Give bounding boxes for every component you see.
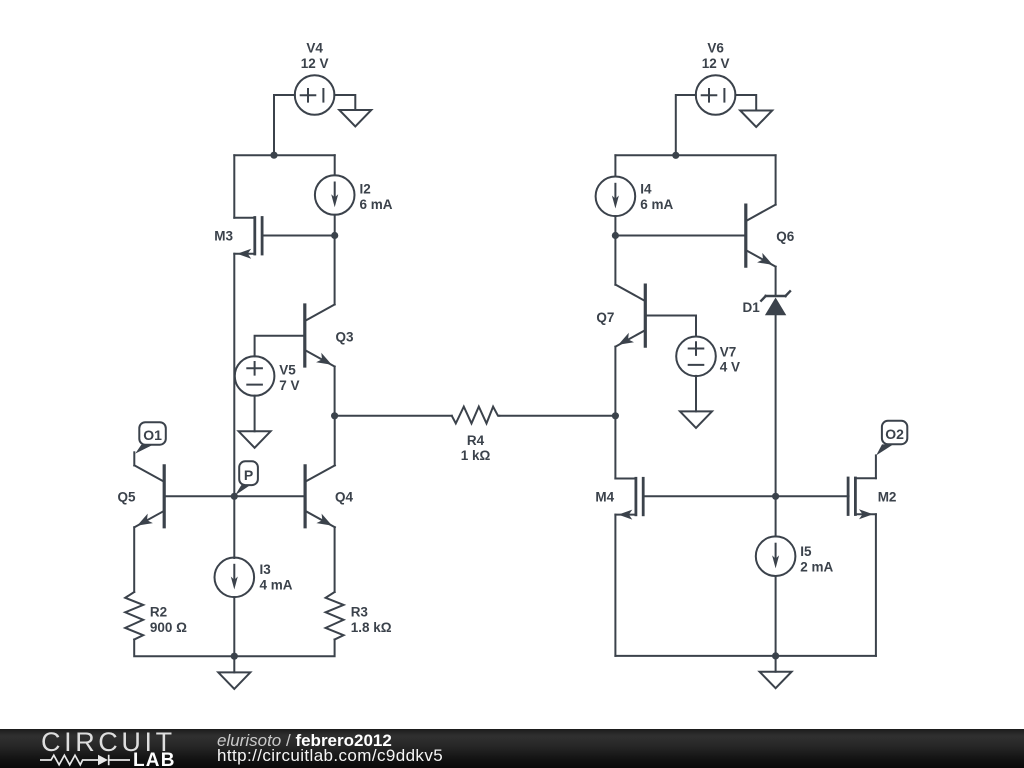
- transistor Q7 (PNP): [616, 285, 646, 347]
- ground bottom-right: [760, 672, 792, 689]
- wire M3 drain from rail: [233, 155, 235, 218]
- node junction I4/Q6 base/Q7 collector: [612, 232, 619, 239]
- wire Q3 emitter down to node: [334, 367, 336, 416]
- transistor Q3 (NPN): [305, 305, 335, 367]
- wire I2 top lead: [334, 155, 336, 175]
- wire gate bus M4-M2: [643, 495, 848, 497]
- svg-text:12 V: 12 V: [702, 56, 730, 71]
- wire V6 right lead to ground: [735, 95, 756, 111]
- svg-text:7 V: 7 V: [279, 378, 299, 393]
- wire node to M4 drain: [614, 416, 616, 479]
- wire Q6 emitter to D1: [775, 267, 777, 296]
- svg-text:4 mA: 4 mA: [260, 577, 293, 592]
- resistor R2: [125, 592, 143, 640]
- wire O2 to M2 drain: [875, 455, 877, 478]
- transistor Q5 (PNP): [134, 465, 164, 527]
- wire V5 plus lead to Q3 base: [255, 336, 305, 357]
- wire R4 right to node: [499, 415, 615, 417]
- svg-text:I4: I4: [640, 182, 652, 197]
- transistor Q4 (NPN): [305, 465, 335, 527]
- diode D1 (zener): [761, 291, 790, 315]
- wire O1 to Q5 collector: [133, 452, 135, 465]
- svg-text:O2: O2: [885, 426, 904, 442]
- flag O1: [135, 422, 166, 453]
- CircuitLab logo wordmark CIRCUIT: [41, 726, 176, 758]
- wire M2 source down to rail: [875, 514, 877, 656]
- svg-text:R4: R4: [467, 433, 485, 448]
- node junction bottom-left ground: [231, 653, 238, 660]
- wire Q7 emitter down to node: [614, 347, 616, 416]
- wire base bus Q5-P-Q4: [164, 495, 305, 497]
- svg-text:1.8 kΩ: 1.8 kΩ: [351, 620, 392, 635]
- svg-text:I3: I3: [260, 562, 272, 577]
- wire V4 left lead to rail: [274, 95, 295, 155]
- voltage source V4: [295, 75, 335, 115]
- ground at V7: [680, 411, 712, 428]
- wire I3 bottom lead: [233, 597, 235, 656]
- svg-text:V7: V7: [720, 344, 737, 359]
- CircuitLab logo schematic mark (resistor + diode): [40, 748, 132, 768]
- svg-text:Q6: Q6: [776, 229, 795, 244]
- voltage source V6: [696, 75, 736, 115]
- wire bottom-right rail: [615, 655, 876, 657]
- svg-text:I5: I5: [800, 544, 812, 559]
- svg-text:M3: M3: [214, 229, 233, 244]
- wire I5 top lead: [775, 496, 777, 536]
- svg-text:Q7: Q7: [596, 310, 614, 325]
- svg-text:6 mA: 6 mA: [360, 197, 393, 212]
- wire Q6 collector to rail: [775, 155, 777, 204]
- svg-text:Q5: Q5: [117, 490, 136, 505]
- current source I2: [315, 175, 355, 215]
- wire ground stem bottom-left: [233, 656, 235, 672]
- node junction bottom-right ground: [772, 652, 779, 659]
- transistor M2 (PMOS): [848, 478, 876, 519]
- node junction gate bus / D1 / I5: [772, 493, 779, 500]
- wire I4 bottom lead: [614, 216, 616, 235]
- wire top-right rail: [615, 154, 775, 156]
- wire Q4 collector to node: [334, 416, 336, 466]
- svg-text:4 V: 4 V: [720, 360, 740, 375]
- wire Q4 emitter to R3: [334, 527, 336, 592]
- wire I4 top lead: [614, 155, 616, 176]
- svg-text:6 mA: 6 mA: [640, 197, 673, 212]
- wire I5 bottom lead: [775, 576, 777, 656]
- node junction R4/Q7/M4: [612, 412, 619, 419]
- wire V7 minus lead to ground: [695, 376, 697, 412]
- wire M3 source down to node P: [233, 254, 235, 496]
- wire M4 source down to rail: [614, 515, 616, 656]
- footer author line: [217, 732, 392, 749]
- svg-text:Q3: Q3: [336, 330, 355, 345]
- wire node to R4 left: [335, 415, 452, 417]
- current source I3: [215, 558, 255, 598]
- transistor Q6 (NPN): [746, 205, 776, 267]
- svg-text:1 kΩ: 1 kΩ: [461, 448, 491, 463]
- svg-text:M2: M2: [878, 489, 897, 504]
- svg-text:M4: M4: [595, 489, 614, 504]
- current source I4: [596, 177, 636, 217]
- footer url line: [217, 747, 443, 764]
- node junction I2/M3 gate/Q3 collector: [331, 232, 338, 239]
- node junction V4/rail: [270, 152, 277, 159]
- wire V4 right lead to ground: [334, 95, 355, 110]
- resistor R4: [452, 407, 499, 424]
- ground at V6: [740, 111, 772, 128]
- svg-text:O1: O1: [143, 427, 162, 443]
- resistor R3: [326, 592, 344, 640]
- wire P node to I3: [233, 496, 235, 558]
- node junction Q3/R4/Q4: [331, 412, 338, 419]
- current source I5: [756, 536, 796, 576]
- wire bottom-left rail: [134, 640, 334, 657]
- svg-text:Q4: Q4: [335, 490, 354, 505]
- svg-text:R2: R2: [150, 605, 167, 620]
- wire V5 minus lead to ground: [254, 396, 256, 432]
- svg-text:I2: I2: [360, 182, 371, 197]
- svg-text:900 Ω: 900 Ω: [150, 620, 187, 635]
- wire node to Q3 collector: [334, 236, 336, 305]
- svg-text:P: P: [244, 467, 253, 483]
- flag O2: [876, 421, 907, 456]
- voltage source V5: [235, 356, 275, 396]
- wire Q6 base: [615, 235, 745, 237]
- svg-text:R3: R3: [351, 605, 369, 620]
- node P junction: [231, 493, 238, 500]
- wire Q5 emitter to R2: [133, 527, 135, 592]
- node junction V6/rail: [672, 152, 679, 159]
- wire node to Q7 collector: [614, 236, 616, 285]
- svg-text:V4: V4: [306, 41, 323, 56]
- svg-text:V6: V6: [707, 41, 724, 56]
- svg-text:12 V: 12 V: [301, 56, 329, 71]
- transistor M4 (PMOS): [615, 478, 643, 519]
- CircuitLab logo LAB: [133, 751, 176, 768]
- voltage source V7: [676, 337, 716, 377]
- ground at V5: [239, 431, 271, 448]
- wire ground stem bottom-right: [775, 656, 777, 672]
- wire top-left rail: [234, 154, 334, 156]
- wire D1 anode down to gate bus: [775, 315, 777, 496]
- svg-text:V5: V5: [279, 363, 296, 378]
- flag node P: [235, 461, 258, 495]
- svg-text:D1: D1: [743, 300, 761, 315]
- wire V6 left lead to rail: [676, 95, 696, 155]
- wire Q7 base to V7: [645, 316, 696, 337]
- wire I2 bottom lead: [334, 215, 336, 236]
- transistor M3 (PMOS): [234, 218, 262, 259]
- svg-text:2 mA: 2 mA: [800, 559, 833, 574]
- ground bottom-left: [218, 672, 250, 689]
- ground at V4: [339, 110, 371, 127]
- wire M3 gate to node: [262, 235, 335, 237]
